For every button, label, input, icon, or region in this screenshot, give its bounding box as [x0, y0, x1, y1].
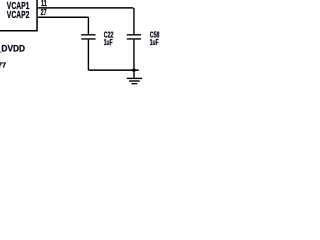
- svg-text:11: 11: [41, 0, 47, 8]
- wire C58 vertical upper: [133, 8, 135, 34]
- wire pin11 to C58 top: [38, 7, 133, 9]
- svg-text:1uF: 1uF: [150, 38, 159, 47]
- svg-text:77: 77: [0, 61, 6, 70]
- wire pin27 to C22 top: [38, 16, 89, 18]
- ground bar 1: [127, 77, 142, 79]
- wire C58 vertical lower: [133, 40, 135, 71]
- capacitor C22: [81, 35, 95, 39]
- IC U? box edge (clipped top-left): [0, 0, 37, 31]
- wire C22 vertical lower: [87, 40, 89, 71]
- svg-text:_DVDD: _DVDD: [0, 44, 25, 55]
- ground stem: [133, 70, 135, 78]
- svg-text:1uF: 1uF: [104, 38, 113, 47]
- capacitor C58: [127, 35, 141, 39]
- svg-text:VCAP2: VCAP2: [7, 10, 30, 21]
- bottom ground wire: [88, 69, 138, 71]
- ground bar 3: [131, 83, 137, 85]
- junction dot: [132, 68, 135, 71]
- svg-text:27: 27: [41, 8, 47, 17]
- wire C22 vertical upper: [87, 17, 89, 34]
- ground bar 2: [129, 80, 140, 82]
